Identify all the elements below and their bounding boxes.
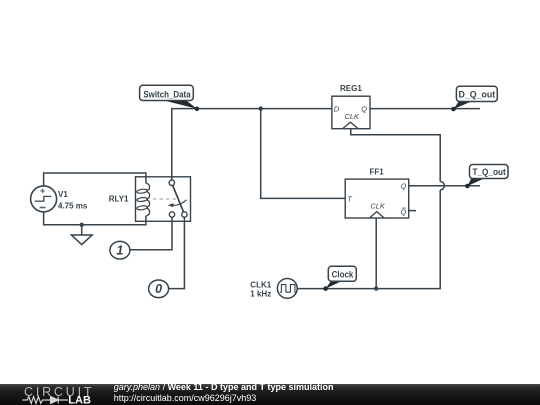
svg-text:RLY1: RLY1 <box>109 195 129 204</box>
node 0 <box>149 280 169 298</box>
svg-text:REG1: REG1 <box>340 84 362 93</box>
svg-text:Q: Q <box>361 104 367 113</box>
svg-text:D_Q_out: D_Q_out <box>459 90 496 100</box>
svg-text:FF1: FF1 <box>369 167 384 176</box>
svg-text:T: T <box>347 195 352 204</box>
svg-text:1 kHz: 1 kHz <box>250 290 271 299</box>
wire V1 bottom rail <box>44 212 146 225</box>
net flag Clock <box>323 266 356 291</box>
wire V1 top to coil <box>44 173 146 186</box>
svg-text:CLK1: CLK1 <box>250 280 271 289</box>
svg-text:gary.phelan / Week 11 - D type: gary.phelan / Week 11 - D type and T typ… <box>114 382 334 392</box>
voltage source V1 <box>31 186 57 212</box>
svg-text:Clock: Clock <box>332 270 355 280</box>
junction on data bus <box>259 106 263 110</box>
svg-text:Switch_Data: Switch_Data <box>143 90 191 100</box>
svg-text:LAB: LAB <box>68 394 91 405</box>
clock source CLK1 <box>277 279 297 299</box>
wire data bus branch down to FF1 T <box>261 109 346 199</box>
wire FF1 Qbar stub <box>409 210 416 212</box>
net flag Switch_Data <box>140 85 200 111</box>
svg-text:http://circuitlab.com/cw96296j: http://circuitlab.com/cw96296j7vh93 <box>114 393 257 403</box>
svg-text:D: D <box>334 104 340 113</box>
wire relay NC contact to node 1 <box>130 217 172 250</box>
wire hop over FF1 Q output <box>440 182 444 190</box>
svg-text:0: 0 <box>155 282 162 296</box>
junction clock line <box>374 286 378 290</box>
svg-text:1: 1 <box>116 244 123 258</box>
wire REG1 Q output <box>370 108 480 110</box>
ground <box>71 223 92 245</box>
svg-text:V1: V1 <box>58 190 68 199</box>
node 1 <box>110 241 130 259</box>
svg-text:Q: Q <box>401 181 407 190</box>
net flag T_Q_out <box>465 165 508 189</box>
svg-text:CLK: CLK <box>345 112 360 121</box>
footer bar <box>0 384 540 405</box>
svg-text:Q: Q <box>401 208 407 217</box>
CircuitLab logo schematic icon <box>22 397 68 404</box>
D flip-flop REG1 <box>332 84 370 129</box>
svg-text:T_Q_out: T_Q_out <box>473 167 506 177</box>
wire FF1 Q output <box>409 185 480 187</box>
svg-text:4.75 ms: 4.75 ms <box>58 201 88 210</box>
wire switch common up to data bus and to REG1 D <box>172 109 332 181</box>
net flag D_Q_out <box>451 86 497 111</box>
relay RLY1 <box>136 177 191 222</box>
wire REG1 CLK down and right to clock vertical <box>351 129 440 182</box>
wire FF1 CLK down to clock line <box>375 218 377 289</box>
wire relay NO contact to node 0 <box>169 217 185 288</box>
wire clock vertical lower segment <box>297 190 440 289</box>
svg-text:CLK: CLK <box>370 202 385 211</box>
T flip-flop FF1 <box>345 167 409 218</box>
